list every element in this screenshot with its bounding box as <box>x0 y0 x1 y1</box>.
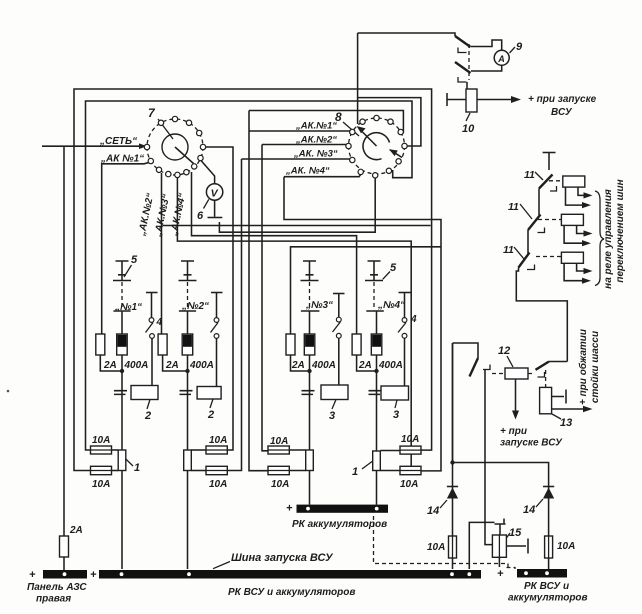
voltmeter V (item 6) <box>206 184 222 200</box>
wire from АК.№4 row down and across to diode junction column <box>284 177 441 471</box>
svg-text:10А: 10А <box>209 435 227 446</box>
fuse 10А lower (battery 3) <box>268 466 289 474</box>
svg-text:15: 15 <box>509 527 522 539</box>
contactor armature bars battery 1 <box>114 391 127 395</box>
svg-text:2А: 2А <box>165 360 179 371</box>
mechanical link dashed of ammeter switch <box>468 44 470 80</box>
fuse 400А battery 1 <box>117 334 128 355</box>
svg-text:правая: правая <box>36 594 71 605</box>
wire ammeter loop bottom <box>471 65 502 71</box>
fuse 400А battery 2 <box>182 334 193 355</box>
dashed hook to right bus <box>507 568 516 570</box>
contactor 3 (battery 4) <box>381 386 409 400</box>
svg-text:12: 12 <box>498 345 510 357</box>
wire АК№4 tap run to battery4 2А fuse <box>192 172 357 334</box>
contactor armature bars battery 3 <box>302 391 315 395</box>
svg-text:„АК.№1“: „АК.№1“ <box>295 121 337 132</box>
wire main battery 4 column <box>376 355 378 505</box>
fuse 10А lower (battery 2) <box>206 466 227 474</box>
battery 1 terminal 5 <box>113 261 131 281</box>
contact blade left of relay 12 <box>470 358 479 377</box>
wire СЕТЬ feed from panel AZS <box>42 146 144 536</box>
svg-text:10А: 10А <box>209 479 227 490</box>
battery 3 terminal 5 <box>301 261 319 281</box>
relay box 3 of bus control <box>561 252 583 263</box>
wire column x249 down to battery3 lower 10А fuse <box>249 111 268 471</box>
svg-text:14: 14 <box>427 505 439 517</box>
svg-text:ВСУ: ВСУ <box>551 107 573 118</box>
fuse 10А right of relay 15 <box>545 536 553 558</box>
relay box 2 of bus control <box>561 214 583 225</box>
fuse 10 body <box>466 89 477 112</box>
contact blade right of relay 12 <box>536 362 550 370</box>
wire АК№2 tap down to battery2 2А fuse <box>161 173 163 334</box>
svg-text:13: 13 <box>560 417 572 429</box>
ground bar of voltmeter <box>208 217 223 219</box>
svg-text:+: + <box>90 569 97 581</box>
wire 2А fuse to junction battery 2 <box>163 355 188 371</box>
svg-text:РК ВСУ и: РК ВСУ и <box>524 581 569 592</box>
svg-text:11: 11 <box>508 201 519 213</box>
svg-text:„АК №1“: „АК №1“ <box>100 154 144 165</box>
fixed contact hook lower <box>458 77 467 82</box>
svg-text:5: 5 <box>131 254 138 266</box>
fuse 2А battery 1 <box>96 334 105 355</box>
contact 11 third blade <box>519 253 530 268</box>
wire between contact 1 and 2 <box>538 189 540 216</box>
wire battery3 2А feed run to battery4 lower fuse right feed <box>291 247 442 334</box>
fuse 400А battery 4 <box>371 334 382 355</box>
bus РК ВСУ и аккумуляторов (right) <box>517 569 567 578</box>
wire to ammeter disconnect switch <box>358 33 455 36</box>
svg-text:V: V <box>211 188 219 200</box>
svg-text:2: 2 <box>144 410 151 422</box>
wire selector8 row АК.№2 <box>262 144 348 146</box>
wire АК№1 tap to battery 1 fuse 2А <box>102 163 149 335</box>
svg-text:+ при обжатии: + при обжатии <box>577 329 589 405</box>
svg-text:2А: 2А <box>291 360 305 371</box>
wire junction feed to relay 12 left contact <box>453 343 479 463</box>
junction dot battery 1 <box>120 369 124 373</box>
svg-text:400А: 400А <box>124 360 149 371</box>
svg-text:10А: 10А <box>427 542 445 553</box>
wire from relay12 left area down to relay 15 <box>485 370 492 545</box>
svg-text:+ при: + при <box>500 426 527 437</box>
arrow into switch 7 СЕТЬ contact <box>139 143 147 149</box>
svg-text:стойки шасси: стойки шасси <box>590 331 601 403</box>
battery 4 terminal 5 <box>365 261 383 281</box>
contactor 2 (battery 1) <box>131 386 158 400</box>
curly brace for relay group <box>595 191 604 286</box>
arrow output of fuse 10 <box>477 99 514 101</box>
bus Панель АЗС правая (small left) <box>43 570 87 579</box>
unit 1 box (battery 2) <box>184 450 192 471</box>
svg-text:2: 2 <box>207 409 214 421</box>
svg-text:аккумуляторов: аккумуляторов <box>508 593 588 604</box>
svg-text:2А: 2А <box>358 360 372 371</box>
svg-text:10А: 10А <box>400 479 418 490</box>
svg-text:на реле управления: на реле управления <box>603 189 614 289</box>
switch 4 battery 3 <box>333 294 345 386</box>
unit 1 box (battery 4) <box>373 451 381 471</box>
relay 15 top contact <box>495 519 506 536</box>
fixed contact hook left of relay 12 <box>483 365 490 370</box>
wire selector7 right contact to battery2 upper 10А fuse <box>203 147 233 450</box>
svg-text:11: 11 <box>524 169 535 181</box>
wire T2: battery1 upper 10А fuse to selector 8 <box>86 98 421 450</box>
fixed contact hook of third 11 <box>527 265 535 270</box>
contactor armature bars battery 2 <box>180 391 193 395</box>
svg-text:1: 1 <box>352 466 358 478</box>
ammeter A (item 9) <box>494 50 509 65</box>
arrows out of relay box 2 <box>564 225 586 243</box>
wire main junction column down to battery bus <box>452 343 454 569</box>
svg-text:+: + <box>497 568 504 580</box>
fixed contact hook right of relay 12 <box>538 372 545 377</box>
svg-text:10А: 10А <box>271 479 289 490</box>
wire run RH2 across to battery4 upper fuse right feed <box>163 225 431 227</box>
wire between contact 2 and 3 <box>527 230 529 254</box>
fuse 10А upper (battery 1) <box>91 446 112 454</box>
junction dot battery 3 <box>307 369 311 373</box>
wire main battery 1 column <box>121 355 123 569</box>
dashed line from accumulator bus to right bus <box>374 516 509 568</box>
fuse 10А lower (battery 4) <box>400 466 421 474</box>
svg-text:Шина запуска ВСУ: Шина запуска ВСУ <box>231 552 334 564</box>
switch 8 wiper arrows <box>359 129 377 147</box>
contact 11 second blade <box>528 215 541 231</box>
battery 2 terminal 5 <box>179 261 197 281</box>
dashed link first 11 to relay box <box>549 180 563 182</box>
svg-text:„АК. №4“: „АК. №4“ <box>285 166 330 177</box>
connector №1 bar <box>113 311 130 334</box>
svg-text:запуске ВСУ: запуске ВСУ <box>500 438 563 449</box>
wire ammeter loop top <box>471 40 502 50</box>
connector №2 bar <box>179 311 196 334</box>
fuse 10А upper (battery 3) <box>268 446 289 454</box>
wire hook to fuse 10 <box>466 82 468 89</box>
switch 4 battery 4 <box>398 293 411 387</box>
svg-text:10А: 10А <box>557 541 575 552</box>
fixed contact hook upper <box>458 48 467 53</box>
svg-text:+: + <box>286 503 293 515</box>
wire main battery 3 column <box>309 355 311 505</box>
svg-text:„№2“: „№2“ <box>181 301 209 312</box>
svg-text:10А: 10А <box>401 434 419 445</box>
svg-text:3: 3 <box>329 410 335 422</box>
wire horizontal junction run to right diode <box>453 463 549 570</box>
fuse 10А left of relay 15 <box>449 536 457 558</box>
fuse 10А upper (battery 2) <box>206 446 227 454</box>
wire after third contact down to relay 12 right contact <box>516 268 567 362</box>
relay box 1 of bus control <box>563 176 585 187</box>
rotary switch 8 dashed contact ring <box>349 118 405 174</box>
connector №4 bar <box>366 311 384 334</box>
fixed contact hook of first 11 <box>550 186 557 191</box>
terminal bar top of relay chain 11 <box>543 152 556 154</box>
svg-text:400А: 400А <box>311 360 336 371</box>
relay 12 coil <box>505 368 528 379</box>
wire selector8 row АК.№4 <box>284 172 363 177</box>
dashed links of relay 12 <box>492 373 535 375</box>
unit 1 box (battery 1) <box>118 450 126 471</box>
voltmeter wiper lead and label 6 <box>204 199 209 208</box>
fuse 2А battery 4 <box>352 334 361 355</box>
svg-text:400А: 400А <box>189 360 214 371</box>
contactor armature bars battery 4 <box>369 391 382 395</box>
fuse 2А battery 2 <box>158 334 167 355</box>
contactor 2 (battery 2) <box>197 387 221 400</box>
switch 4 battery 1 <box>146 293 158 386</box>
diode 14 left <box>447 487 458 499</box>
svg-text:6: 6 <box>197 210 204 222</box>
rotary switch 7 dashed contact ring <box>147 119 203 175</box>
svg-text:5: 5 <box>390 262 397 274</box>
fuse 10А lower (battery 1) <box>91 466 112 474</box>
switch blade upper (ammeter) <box>455 36 471 47</box>
svg-text:10А: 10А <box>270 436 288 447</box>
svg-text:10А: 10А <box>92 435 110 446</box>
wire column x241.5 down to battery2 lower 10А fuse <box>227 159 241 471</box>
wire relay 15 bottom <box>498 557 500 567</box>
wire АК№3 tap run to battery4 lower fuse left feed <box>177 177 411 466</box>
svg-text:4: 4 <box>156 317 163 328</box>
wire T3 run to selector 8 upper right contact <box>249 111 403 134</box>
wire switch7 contact to voltmeter <box>201 161 215 184</box>
item 13 body <box>540 387 552 413</box>
fuse 400А battery 3 <box>304 334 315 355</box>
wire main battery 2 column <box>187 355 189 569</box>
wire 2А fuse to junction battery 3 <box>291 355 310 371</box>
svg-text:+ при запуске: + при запуске <box>528 94 597 105</box>
rotary switch 8 rotor arc <box>363 133 389 160</box>
dashed link terminal to connector №2 <box>187 282 189 307</box>
contact 11 first blade <box>539 175 553 189</box>
arrows out of relay box 3 <box>564 263 586 280</box>
svg-text:14: 14 <box>523 504 535 516</box>
connector №3 bar <box>301 311 320 334</box>
dashed link terminal to connector №3 <box>309 282 311 307</box>
svg-text:„№3“: „№3“ <box>305 300 333 311</box>
svg-text:„СЕТЬ“: „СЕТЬ“ <box>99 136 137 147</box>
svg-text:„АК.№2“: „АК.№2“ <box>295 135 337 146</box>
arrow output of 13 <box>552 408 586 410</box>
junction dot <box>450 460 454 464</box>
relay 15 body <box>492 535 506 557</box>
wire outer loop T1: battery1 lower 10А fuse to diode junction <box>74 89 432 471</box>
switch blade lower (ammeter) <box>455 62 471 73</box>
svg-text:2А: 2А <box>103 360 117 371</box>
svg-text:400А: 400А <box>378 360 403 371</box>
svg-text:переключением шин: переключением шин <box>615 179 626 282</box>
dashed link terminal to connector №1 <box>121 282 123 307</box>
junction dot battery 4 <box>374 369 378 373</box>
main long bus РК ВСУ и аккумуляторов <box>99 570 481 579</box>
contactor 3 (battery 3) <box>321 385 348 400</box>
fuse 2А battery 3 <box>286 334 295 355</box>
dashed link down to item 13 <box>545 370 547 387</box>
arrows out of relay box 1 <box>566 187 587 205</box>
scan speck <box>7 390 10 393</box>
svg-text:10: 10 <box>462 123 475 135</box>
svg-text:10А: 10А <box>92 479 110 490</box>
svg-text:4: 4 <box>410 314 417 325</box>
svg-text:Панель АЗС: Панель АЗС <box>27 582 87 593</box>
terminal bar left of fuse 10 <box>447 93 466 106</box>
svg-text:9: 9 <box>516 41 523 53</box>
rotary switch 7 rotor <box>162 134 188 160</box>
svg-text:A: A <box>497 54 505 64</box>
wire ammeter selector feed down to switch 8 <box>357 33 359 124</box>
svg-text:2А: 2А <box>69 525 83 536</box>
svg-text:11: 11 <box>503 244 514 256</box>
wire 2А fuse to junction battery 4 <box>357 355 377 371</box>
switch 8 contact studs <box>346 115 407 178</box>
wire voltmeter to ground <box>214 200 216 217</box>
switch 7 contact studs <box>144 116 205 177</box>
wire selector8 bottom contact to voltmeter ground area <box>219 178 375 232</box>
wire selector8 row АК.№3 <box>242 158 352 160</box>
diode 14 right <box>543 487 554 499</box>
svg-text:1: 1 <box>134 462 140 474</box>
fixed contact hook of second 11 <box>538 228 545 233</box>
dashed link third 11 to relay box <box>536 256 561 258</box>
wire 2А fuse to junction battery 1 <box>100 355 122 371</box>
wire loop from bus to relay 15 top contact <box>469 522 494 569</box>
dashed link second 11 to relay box <box>538 219 561 221</box>
wire selector8 row АК.№1 <box>249 130 351 132</box>
wire column x262 down to battery3 upper 10А fuse <box>262 145 268 451</box>
terminal bar right of 15 <box>506 539 528 554</box>
switch 7 wiper <box>175 147 194 164</box>
svg-text:РК ВСУ и аккумуляторов: РК ВСУ и аккумуляторов <box>228 587 355 598</box>
svg-text:+: + <box>29 569 36 581</box>
fuse 10А upper (battery 4) <box>400 446 421 454</box>
svg-text:3: 3 <box>393 409 399 421</box>
svg-text:„№1“: „№1“ <box>114 302 142 313</box>
svg-text:„АК. №3“: „АК. №3“ <box>293 149 338 160</box>
switch 4 battery 2 <box>211 293 223 387</box>
wire right contact to chain <box>549 361 567 363</box>
svg-text:РК аккумуляторов: РК аккумуляторов <box>292 519 387 530</box>
arrow down from relay 12 <box>515 379 517 413</box>
fuse 2А of panel <box>60 536 69 557</box>
dashed link terminal to connector №4 <box>373 282 375 307</box>
unit 1 box (battery 3) <box>306 450 314 471</box>
bus РК аккумуляторов (middle) <box>297 505 389 513</box>
svg-text:„№4“: „№4“ <box>377 300 405 311</box>
terminal bar right of 13 <box>552 390 566 404</box>
junction dot battery 2 <box>185 369 189 373</box>
